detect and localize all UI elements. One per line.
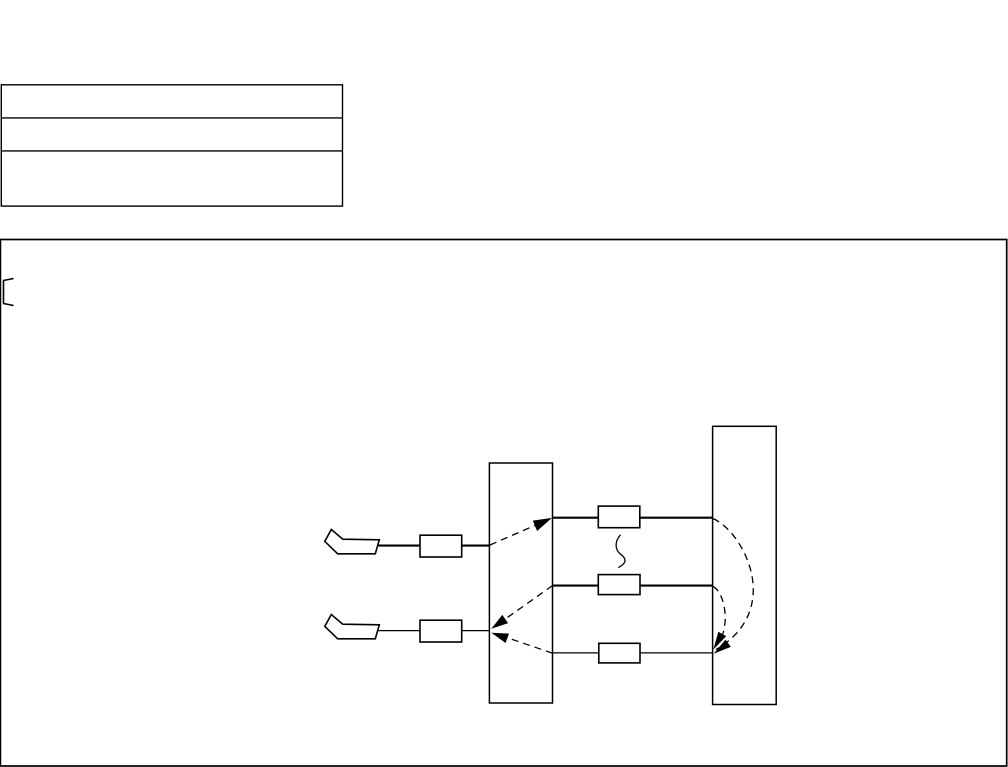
bracket glyph "[" inside box top-left [4,279,14,306]
dashed arrow B: row2 (552,586) down-left to junction (490,630) [506,586,553,619]
rect A1 [420,535,462,557]
rect A2 [420,620,462,642]
wire: row 2 right segment (heavy) [640,585,713,587]
flag callout 1 (upper left pennant) [325,530,380,554]
large outer box [0,240,1006,767]
arrowhead A [533,518,552,531]
arrowhead C [491,633,509,643]
table (3-row empty table, top-left) [1,85,342,206]
wire: row 3 right segment (thin) [640,652,713,654]
right tall rectangle [713,426,777,704]
arrowhead E [713,632,726,650]
middle rect M3 [599,643,640,663]
flag callout 2 (lower left pennant) [325,615,380,639]
wire: rect A1 to left tall rect (heavy) [462,545,490,547]
wire: flag 2 to rect A2 (thin) [379,630,421,632]
middle rect M1 [598,506,640,528]
wire: row 1 right segment (heavy) [640,517,713,519]
dashed arc E: small arc row2 right junction to row3 right junction [713,587,725,647]
middle rect M2 [598,575,640,595]
wire: row 1 left segment (heavy) [553,517,599,519]
wire: flag 1 to rect A1 (heavy) [379,545,421,547]
dashed arrow A: junction (490,545) up to row1 at (552,518) [490,525,537,546]
arrowhead D [714,640,731,654]
wire: rect A2 to left tall rect (thin) [462,630,490,632]
wire: row 3 left segment (thin) [553,652,599,654]
wire: row 2 left segment (heavy) [553,585,599,587]
dashed arrow C: row3 (552,653) up-left to junction (490,632) [508,638,553,653]
arrowhead B [491,615,508,629]
left tall rectangle [489,463,552,703]
squiggle between M1 and M2 [616,535,625,568]
dashed arc D: big arc row1 right junction to row3 right junction [713,519,753,650]
